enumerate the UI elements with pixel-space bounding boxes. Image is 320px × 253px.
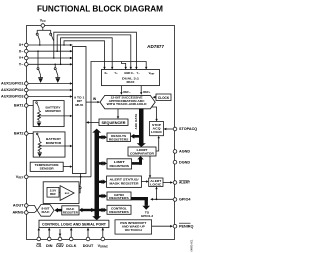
bus stub limit registers	[99, 161, 107, 165]
pin AUX1	[25, 82, 29, 86]
DAC REGISTER box	[62, 206, 79, 215]
pin CS	[37, 237, 41, 241]
ground switch X-	[37, 51, 41, 77]
svg-text:CS: CS	[36, 244, 42, 248]
ref select switch	[74, 174, 81, 193]
battery monitor 1	[33, 101, 70, 127]
svg-text:PENIRQ: PENIRQ	[179, 224, 193, 228]
svg-text:Y−: Y−	[137, 71, 141, 75]
svg-text:DAV: DAV	[56, 244, 64, 248]
harness: Vcc tree	[36, 28, 53, 46]
pin AUX2	[25, 88, 29, 92]
pin PENIRQ	[173, 224, 177, 228]
wire AUX1	[26, 83, 72, 85]
svg-text:AUX2/GPIO2: AUX2/GPIO2	[1, 88, 24, 92]
pin X+	[25, 43, 29, 47]
GPIO4 pin wire	[152, 198, 176, 200]
LIMIT COMPARATOR box	[128, 147, 156, 156]
pin circles	[25, 24, 177, 241]
STOP ACQ LOGIC box	[150, 122, 164, 136]
2.5V ref block	[43, 182, 79, 204]
svg-text:REF: REF	[50, 192, 56, 196]
CONTROL REGISTERS box	[107, 205, 131, 214]
alert logic to gpio4 wire	[156, 188, 158, 200]
svg-text:ADC DATA: ADC DATA	[134, 113, 138, 129]
IN wire	[86, 97, 100, 104]
SEQUENCER box	[99, 119, 128, 126]
comparator to stop acq logic	[156, 137, 159, 151]
pin X-	[25, 49, 29, 53]
svg-text:CONTROL LOGIC AND SERIAL PORT: CONTROL LOGIC AND SERIAL PORT	[42, 222, 106, 226]
wire X+ row	[26, 44, 72, 46]
svg-text:04695-001: 04695-001	[190, 239, 193, 252]
thick arrow dac reg to dac	[54, 208, 61, 213]
svg-text:REGISTERS: REGISTERS	[109, 137, 129, 141]
pin ALERT	[173, 181, 177, 185]
pin labels right	[179, 127, 197, 228]
svg-text:X+: X+	[104, 71, 108, 75]
svg-text:Y−: Y−	[19, 63, 25, 67]
limit reg to comparator thick L arrow	[132, 156, 144, 165]
wire BAT2	[26, 133, 33, 135]
ref vertical and vref feed to dual mux	[91, 62, 146, 177]
svg-text:MUX: MUX	[127, 80, 135, 84]
svg-text:AOUT: AOUT	[13, 204, 24, 208]
8-BIT DAC hexagon	[37, 205, 54, 217]
svg-text:MONITOR: MONITOR	[45, 109, 61, 113]
bus stub dac register (left)	[79, 208, 95, 212]
thick arrow gpio regs to GPIO1-3	[131, 197, 150, 210]
svg-text:DOUT: DOUT	[83, 244, 94, 248]
STOPACQ pin wire	[165, 128, 175, 130]
CLOCK box	[153, 94, 171, 101]
wire AUX2	[26, 89, 72, 91]
svg-text:AUX1/GPIO1: AUX1/GPIO1	[1, 82, 24, 86]
bus stub results	[99, 135, 107, 139]
arrowheads into 9to1 mux left edge	[70, 44, 73, 168]
temperature sensor	[30, 162, 70, 171]
pin labels left	[1, 43, 24, 215]
svg-text:Y+: Y+	[19, 56, 25, 60]
ADC hexagon	[100, 95, 155, 108]
svg-text:WITH TRACK-AND-HOLD: WITH TRACK-AND-HOLD	[107, 102, 147, 106]
ADC to stop acq wire	[152, 107, 157, 120]
pin DCLK	[69, 237, 73, 241]
svg-text:DAC: DAC	[42, 210, 50, 214]
svg-text:STOPACQ: STOPACQ	[179, 127, 197, 131]
svg-text:ARNG: ARNG	[12, 211, 23, 215]
harness nested lines to top mux	[54, 32, 137, 69]
switch Vcc-Y+	[50, 33, 52, 35]
svg-text:AUX3/GPIO3: AUX3/GPIO3	[1, 95, 24, 99]
bottom pin stubs	[39, 228, 103, 237]
svg-text:REGISTERS: REGISTERS	[110, 164, 130, 168]
svg-text:ALERT: ALERT	[179, 181, 191, 185]
PENIRQ overline	[179, 222, 191, 224]
PEN INTERRUPT box	[115, 220, 152, 234]
wire Y+ row	[26, 57, 72, 59]
PENIRQ wire	[152, 225, 172, 227]
svg-text:X+: X+	[19, 43, 25, 47]
ALERT LOGIC box	[149, 178, 163, 187]
svg-text:BUF: BUF	[65, 193, 70, 195]
RESULTS REGISTERS box	[107, 133, 131, 142]
ground symbol right	[55, 78, 60, 83]
alert status to alert logic arrow	[141, 181, 147, 183]
svg-text:X−: X−	[131, 71, 135, 75]
pin DAV	[58, 237, 62, 241]
switch Vcc-X+	[36, 33, 38, 35]
svg-text:REF+: REF+	[143, 90, 151, 94]
wire Y- row	[26, 63, 72, 65]
ALERT STATUS / MASK REGISTER box	[107, 176, 142, 187]
pin AOUT	[25, 204, 29, 208]
REF- arrow	[120, 86, 131, 95]
svg-text:VREF: VREF	[16, 175, 24, 180]
svg-text:DGND: DGND	[179, 160, 190, 164]
svg-text:LOGIC: LOGIC	[151, 130, 163, 134]
bus stub control regs	[99, 208, 107, 212]
AOUT wire	[28, 206, 37, 211]
junction dots harness	[39, 44, 65, 65]
svg-text:AD7877: AD7877	[147, 44, 164, 49]
pin DIN	[47, 237, 51, 241]
DAV overline	[57, 243, 63, 245]
svg-text:DIN: DIN	[46, 244, 53, 248]
svg-text:DCLK: DCLK	[66, 244, 77, 248]
svg-text:SENSOR: SENSOR	[40, 167, 55, 171]
ADC DATA bus	[131, 108, 146, 147]
ALERT overline	[179, 179, 189, 181]
battery monitor 2	[33, 132, 70, 157]
svg-text:GPIO1-3: GPIO1-3	[141, 214, 153, 218]
bus stub alert status	[99, 180, 107, 184]
svg-text:COMPARATOR: COMPARATOR	[130, 152, 155, 156]
svg-text:VDRIVE: VDRIVE	[98, 244, 109, 249]
mux input arrowheads	[103, 67, 147, 70]
pin AGND	[173, 150, 177, 154]
pin DGND	[173, 160, 177, 164]
svg-text:VCC: VCC	[40, 19, 46, 24]
wire BAT1	[26, 105, 33, 107]
bus stub gpio	[99, 194, 107, 198]
svg-text:Y+: Y+	[114, 71, 118, 75]
CONTROL LOGIC AND SERIAL PORT box	[39, 220, 109, 227]
svg-text:8-BIT: 8-BIT	[42, 207, 50, 211]
alert logic to ALERT pin	[163, 182, 172, 184]
pin ARNG	[25, 211, 29, 215]
svg-text:REGISTER: REGISTER	[63, 210, 79, 214]
svg-text:MASK REGISTER: MASK REGISTER	[110, 181, 140, 185]
svg-text:BAT2: BAT2	[14, 132, 24, 136]
pin Y+	[25, 56, 29, 60]
ARNG wire	[28, 210, 37, 212]
svg-text:ON TOUCH: ON TOUCH	[125, 228, 142, 232]
sequencer to 9to1 mux	[87, 121, 99, 123]
pin VREF	[25, 175, 29, 179]
pin labels bottom	[36, 244, 108, 249]
pin GPIO4	[173, 198, 177, 202]
svg-text:GPIO4: GPIO4	[179, 198, 191, 202]
dots for ground switches	[37, 50, 56, 65]
svg-text:SEQUENCER: SEQUENCER	[102, 121, 127, 125]
svg-text:MONITOR: MONITOR	[46, 141, 62, 145]
CS overline	[37, 243, 41, 245]
buffer amp triangle	[60, 186, 74, 201]
wire X- riser to mux drop	[57, 35, 131, 69]
svg-text:REF−: REF−	[123, 90, 131, 94]
pin BAT2	[25, 132, 29, 136]
pin BAT1	[25, 104, 29, 108]
svg-text:LOGIC: LOGIC	[150, 182, 162, 186]
wire Y- riser to mux drop	[61, 38, 113, 69]
dual 3:1 mux	[102, 70, 160, 86]
pin AUX3	[25, 95, 29, 99]
9 TO 1 I/P MUX block	[73, 47, 87, 174]
chip outline	[27, 26, 175, 240]
ground switch Y-	[54, 64, 58, 77]
REF+ arrow	[140, 86, 151, 95]
ground symbol left	[38, 78, 43, 83]
ADC to sequencer	[117, 109, 119, 118]
wire AUX3	[26, 96, 72, 98]
main vertical bus	[92, 129, 101, 221]
svg-text:AGND: AGND	[179, 150, 190, 154]
svg-text:2.5V: 2.5V	[50, 188, 57, 192]
wire X- row	[26, 50, 72, 52]
wire VREF pin to ref node	[26, 176, 91, 178]
pin STOPACQ	[173, 127, 177, 131]
pin Vcc	[41, 24, 45, 28]
wire X+ riser to mux drop	[64, 41, 105, 69]
pin Y-	[25, 63, 29, 67]
svg-text:FUNCTIONAL BLOCK DIAGRAM: FUNCTIONAL BLOCK DIAGRAM	[37, 4, 163, 14]
wire GND jumper to mux	[121, 62, 125, 70]
LIMIT REGISTERS box	[107, 159, 132, 169]
pin VDRIVE	[101, 237, 105, 241]
svg-text:BAT1: BAT1	[14, 104, 24, 108]
svg-text:CLOCK: CLOCK	[158, 96, 170, 100]
pin DOUT	[86, 237, 90, 241]
svg-text:REGISTERS: REGISTERS	[109, 196, 129, 200]
comparator to alert logic	[149, 156, 151, 177]
svg-text:REGISTERS: REGISTERS	[109, 210, 129, 214]
svg-text:X−: X−	[19, 49, 25, 53]
svg-text:MUX: MUX	[75, 103, 83, 107]
wire Y+ riser to mux drop	[54, 32, 137, 69]
GPIO REGISTERS box	[107, 192, 131, 200]
svg-text:GND: GND	[124, 71, 130, 75]
